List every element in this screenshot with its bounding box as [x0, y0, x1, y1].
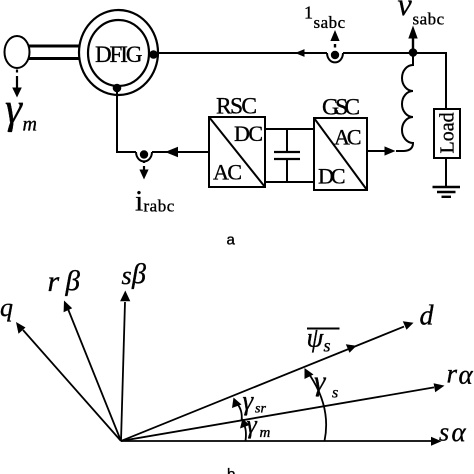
- wire load to ground: [445, 158, 447, 187]
- generator DFIG inner circle: [88, 20, 149, 86]
- label gamma_m small: [247, 410, 271, 441]
- svg-text:sabc: sabc: [314, 13, 346, 32]
- label DFIG: [95, 42, 143, 67]
- svg-text:v: v: [398, 0, 413, 22]
- label gamma_m: [5, 86, 37, 136]
- svg-text:m: m: [260, 425, 271, 441]
- stator current sensor hook: [327, 51, 343, 63]
- converter GSC box: [314, 118, 367, 190]
- axis q: [16, 322, 121, 441]
- label psi_s with overline: [307, 323, 340, 356]
- grid side inductor: [396, 52, 413, 151]
- svg-text:β: β: [131, 259, 146, 290]
- shaft: [28, 46, 80, 59]
- label v_sabc: [398, 0, 445, 29]
- svg-text:γ: γ: [243, 386, 255, 416]
- rotor speed dashed arrow: [12, 70, 22, 98]
- svg-text:sr: sr: [255, 402, 266, 417]
- svg-text:γ: γ: [314, 366, 327, 398]
- ground: [433, 187, 461, 197]
- svg-text:q: q: [0, 293, 13, 322]
- angle arc gamma_s: [305, 368, 327, 441]
- axis s-alpha: [121, 437, 442, 446]
- svg-text:s: s: [439, 418, 449, 447]
- svg-text:s: s: [324, 336, 331, 356]
- svg-text:sabc: sabc: [413, 10, 445, 29]
- stator wire top: [154, 52, 446, 109]
- power flow arrowhead on stator wire: [295, 49, 305, 57]
- label GSC: [322, 95, 360, 121]
- svg-text:r: r: [447, 359, 458, 389]
- prime mover hub: [5, 36, 30, 68]
- load box: [434, 109, 460, 158]
- svg-text:GSC: GSC: [322, 95, 360, 121]
- label d: [420, 301, 435, 332]
- svg-text:rabc: rabc: [144, 197, 175, 216]
- axis s-beta: [120, 291, 130, 442]
- svg-text:i: i: [135, 185, 143, 218]
- DC link capacitor: [274, 128, 300, 183]
- DC link top rail: [265, 128, 314, 130]
- svg-text:AC: AC: [213, 160, 242, 185]
- label RSC: [216, 94, 257, 120]
- label gamma_s: [314, 366, 338, 402]
- label b: [227, 466, 235, 474]
- GSC output arrow: [367, 146, 396, 155]
- svg-text:s: s: [332, 385, 338, 402]
- label s-beta: [122, 259, 147, 290]
- label s-alpha: [439, 417, 467, 447]
- rotor node dot on machine: [113, 84, 122, 93]
- svg-text:DC: DC: [318, 164, 346, 189]
- grid node dot: [409, 48, 418, 57]
- angle arc gamma_m: [240, 419, 250, 442]
- RSC to rotor arrowhead: [165, 147, 178, 158]
- svg-text:r: r: [48, 265, 60, 298]
- stator voltage measurement arrow: [408, 26, 417, 52]
- svg-text:a: a: [227, 232, 236, 249]
- svg-text:m: m: [23, 114, 37, 136]
- svg-text:b: b: [227, 466, 235, 474]
- svg-text:α: α: [452, 417, 467, 447]
- svg-text:ψ: ψ: [307, 323, 325, 353]
- label i_rabc: [135, 185, 175, 218]
- axis d and flux line: [121, 321, 414, 441]
- label r-alpha: [447, 359, 474, 390]
- label r-beta: [48, 265, 81, 298]
- svg-text:d: d: [420, 301, 435, 332]
- flux vector psi_s arrowhead: [346, 344, 357, 353]
- svg-text:1: 1: [304, 3, 313, 23]
- svg-text:Load: Load: [437, 112, 459, 153]
- rotor current sensor hook: [136, 150, 152, 161]
- rotor current measurement arrow: [139, 161, 148, 180]
- svg-text:DC: DC: [234, 121, 263, 146]
- svg-text:AC: AC: [334, 125, 362, 150]
- label 1_sabc: [304, 3, 346, 33]
- svg-text:β: β: [65, 265, 81, 297]
- angle arc gamma_sr: [232, 398, 242, 422]
- axis r-alpha: [121, 383, 445, 441]
- converter RSC box: [209, 117, 265, 187]
- rotor wire: [116, 90, 209, 152]
- svg-text:α: α: [459, 360, 474, 390]
- DC link bottom rail: [265, 181, 314, 183]
- label gamma_sr: [243, 386, 267, 417]
- stator current measurement arrow: [330, 30, 339, 48]
- svg-text:RSC: RSC: [216, 94, 257, 120]
- svg-text:γ: γ: [5, 86, 23, 133]
- label q: [0, 293, 13, 322]
- generator DFIG outer circle: [79, 10, 158, 95]
- label a: [227, 232, 236, 249]
- axis r-beta: [64, 301, 121, 442]
- svg-text:DFIG: DFIG: [95, 42, 143, 67]
- stator node dot: [149, 50, 158, 59]
- svg-text:s: s: [122, 261, 132, 290]
